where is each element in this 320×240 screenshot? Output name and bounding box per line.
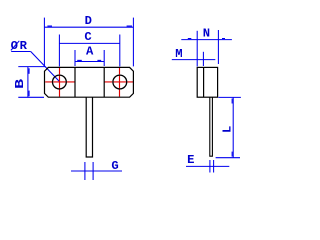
svg-text:R: R [20,39,28,53]
svg-text:D: D [85,14,92,28]
svg-text:O: O [11,39,18,53]
svg-text:G: G [111,159,118,173]
svg-text:E: E [187,153,194,167]
svg-text:C: C [84,30,91,44]
svg-text:A: A [86,45,94,59]
svg-text:M: M [175,47,182,61]
svg-text:B: B [13,78,27,89]
svg-text:L: L [220,126,234,133]
svg-text:N: N [203,27,210,41]
